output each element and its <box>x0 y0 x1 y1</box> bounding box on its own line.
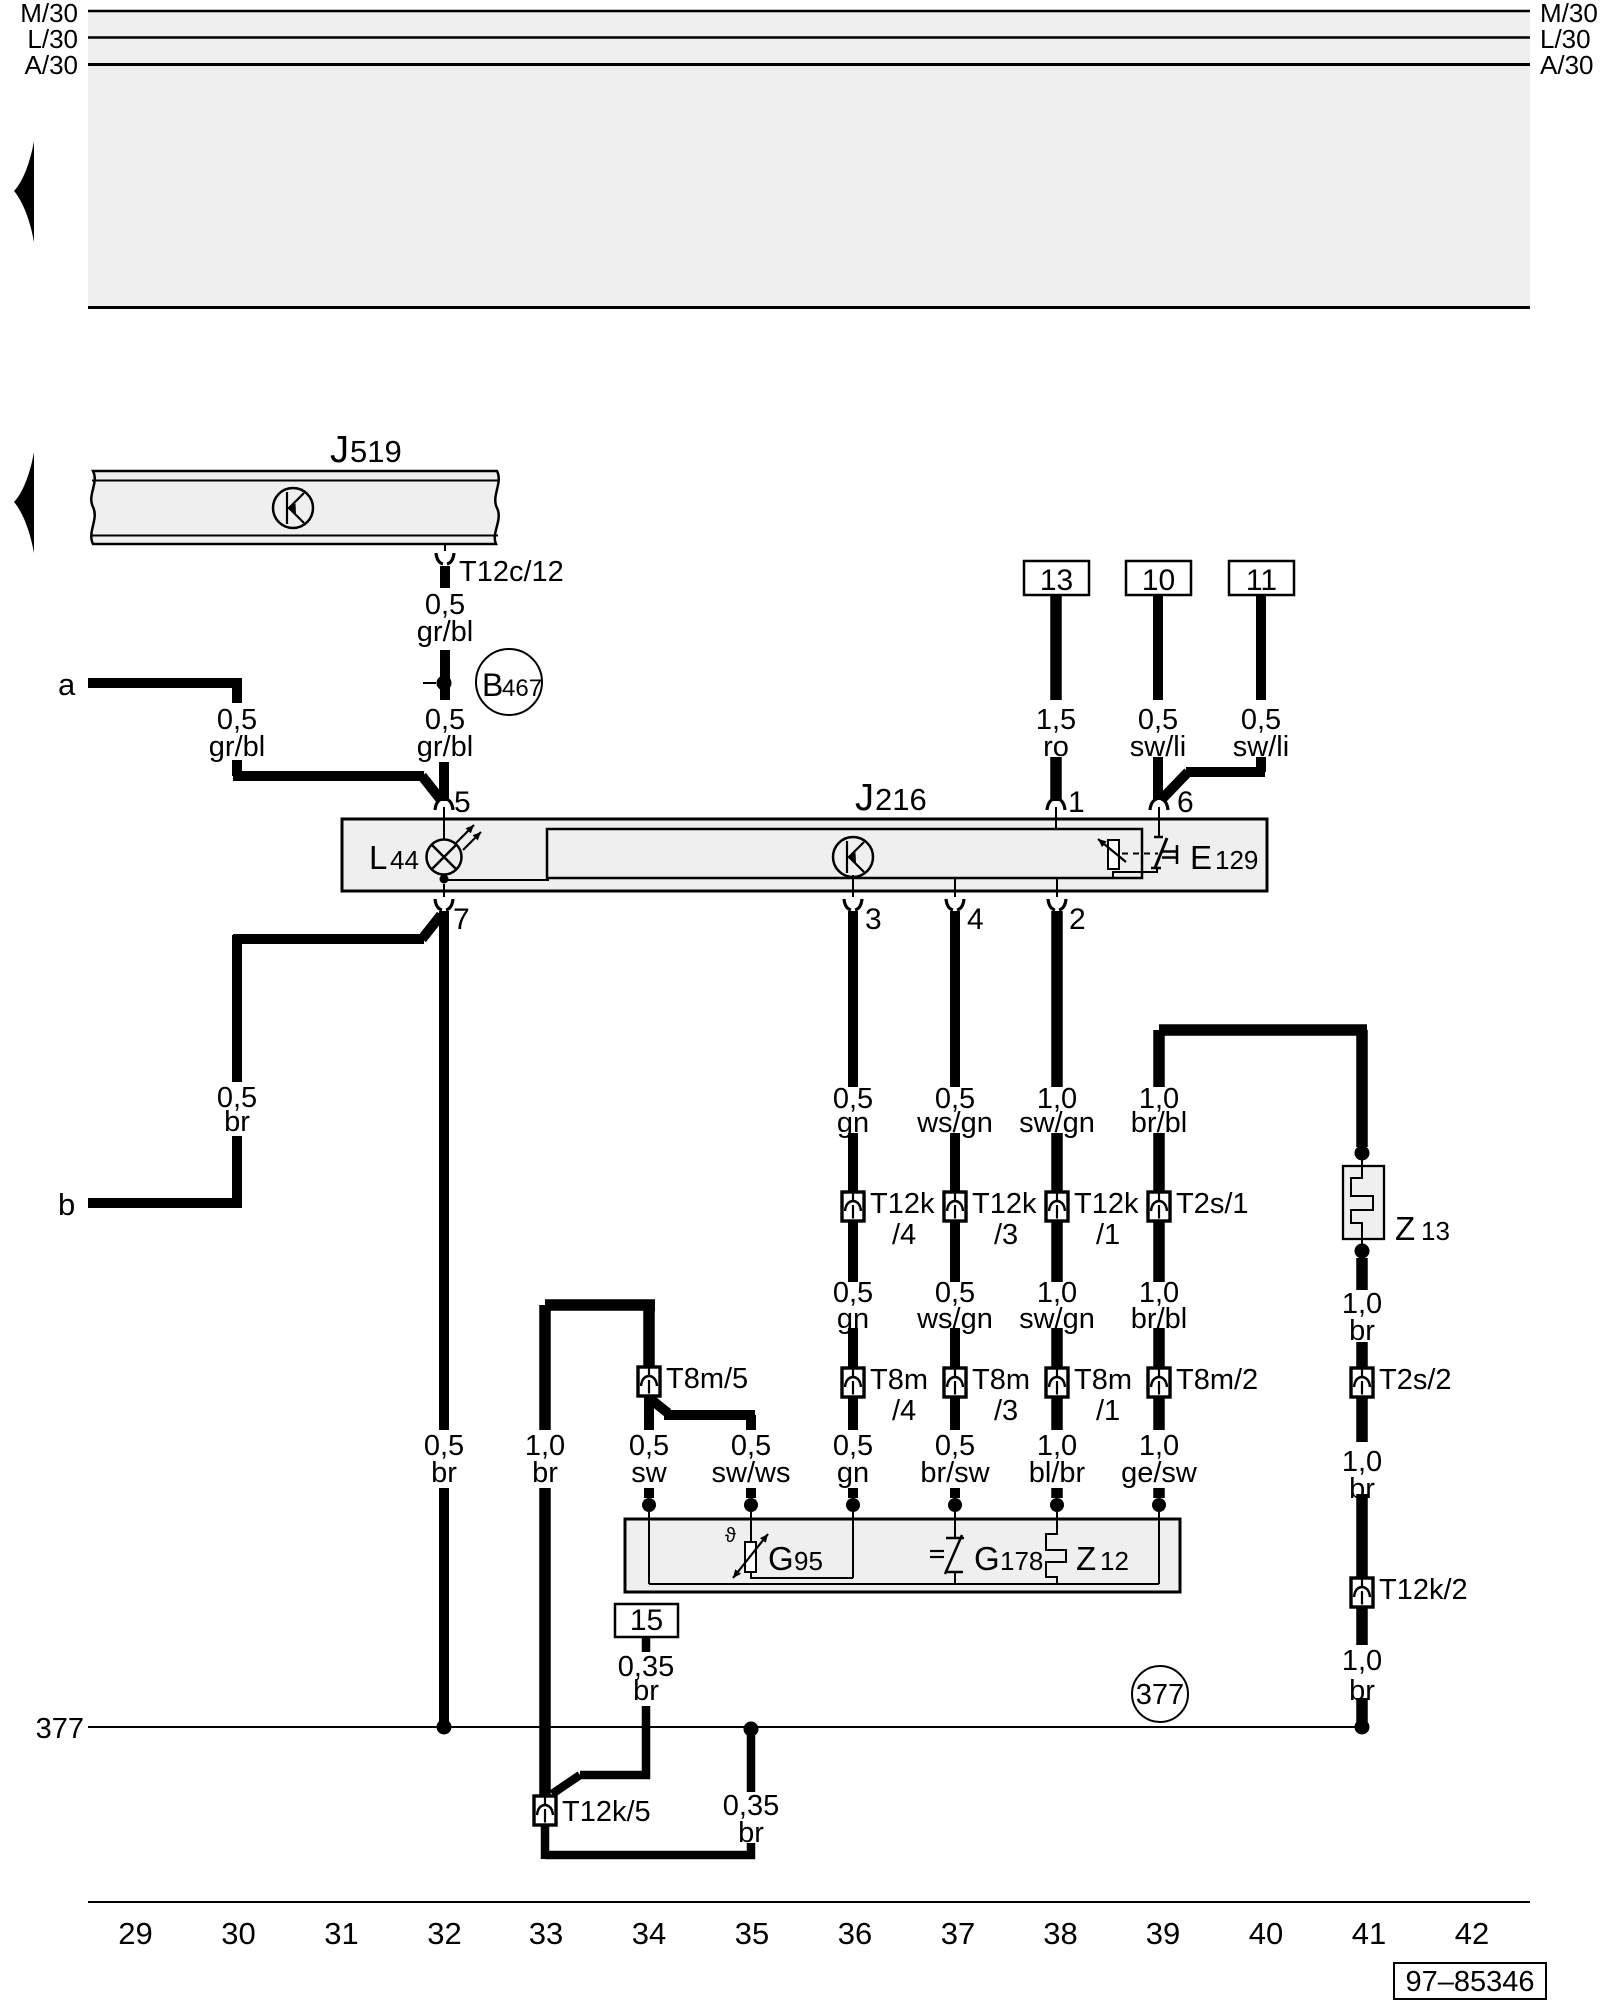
svg-text:42: 42 <box>1455 1916 1489 1951</box>
svg-text:377: 377 <box>36 1713 84 1745</box>
svg-text:A/30: A/30 <box>25 50 79 80</box>
svg-text:gr/bl: gr/bl <box>417 731 473 763</box>
svg-text:gr/bl: gr/bl <box>209 731 265 763</box>
svg-text:T12k: T12k <box>1074 1188 1139 1220</box>
svg-text:T8m/2: T8m/2 <box>1176 1364 1258 1396</box>
svg-text:377: 377 <box>1136 1679 1184 1711</box>
svg-text:br: br <box>224 1106 250 1138</box>
svg-text:30: 30 <box>221 1916 255 1951</box>
svg-text:/3: /3 <box>994 1219 1018 1251</box>
svg-text:/4: /4 <box>892 1219 916 1251</box>
svg-text:1: 1 <box>1068 786 1085 819</box>
svg-text:178: 178 <box>1000 1546 1043 1576</box>
svg-text:13: 13 <box>1040 564 1073 597</box>
svg-text:E: E <box>1190 839 1212 876</box>
svg-text:467: 467 <box>502 675 542 702</box>
svg-text:J: J <box>330 429 349 471</box>
svg-text:T12k/2: T12k/2 <box>1379 1574 1468 1606</box>
svg-text:sw: sw <box>631 1457 668 1489</box>
svg-text:34: 34 <box>632 1916 666 1951</box>
svg-text:T2s/2: T2s/2 <box>1379 1364 1452 1396</box>
svg-text:97–85346: 97–85346 <box>1405 1966 1534 1998</box>
svg-text:br/sw: br/sw <box>920 1457 990 1489</box>
svg-text:T8m/5: T8m/5 <box>666 1363 748 1395</box>
svg-text:37: 37 <box>941 1916 975 1951</box>
svg-text:Z: Z <box>1395 1210 1415 1247</box>
svg-text:G: G <box>974 1540 1000 1577</box>
svg-text:/3: /3 <box>994 1395 1018 1427</box>
svg-text:br: br <box>633 1675 659 1707</box>
svg-text:T8m: T8m <box>1074 1364 1132 1396</box>
svg-text:216: 216 <box>875 782 927 817</box>
svg-text:br: br <box>532 1457 558 1489</box>
svg-text:4: 4 <box>967 903 984 936</box>
svg-text:/4: /4 <box>892 1395 916 1427</box>
svg-text:a: a <box>58 667 76 702</box>
svg-text:T2s/1: T2s/1 <box>1176 1188 1249 1220</box>
svg-text:b: b <box>58 1187 75 1222</box>
svg-text:Z: Z <box>1076 1540 1096 1577</box>
svg-text:B: B <box>482 667 503 703</box>
svg-text:129: 129 <box>1215 845 1258 875</box>
svg-text:13: 13 <box>1421 1216 1450 1246</box>
svg-text:br: br <box>431 1457 457 1489</box>
svg-text:T8m: T8m <box>870 1364 928 1396</box>
svg-text:41: 41 <box>1352 1916 1386 1951</box>
svg-text:40: 40 <box>1249 1916 1283 1951</box>
svg-text:29: 29 <box>118 1916 152 1951</box>
svg-text:gn: gn <box>837 1457 869 1489</box>
svg-text:44: 44 <box>390 845 419 875</box>
svg-text:T12c/12: T12c/12 <box>459 556 564 588</box>
svg-text:10: 10 <box>1142 564 1175 597</box>
svg-text:L: L <box>369 839 387 876</box>
svg-text:T8m: T8m <box>972 1364 1030 1396</box>
svg-text:33: 33 <box>529 1916 563 1951</box>
svg-text:12: 12 <box>1100 1546 1129 1576</box>
svg-text:T12k: T12k <box>972 1188 1037 1220</box>
svg-text:35: 35 <box>735 1916 769 1951</box>
svg-text:T12k/5: T12k/5 <box>562 1796 651 1828</box>
svg-text:br: br <box>738 1817 764 1849</box>
svg-text:T12k: T12k <box>870 1188 935 1220</box>
svg-text:7: 7 <box>453 903 470 936</box>
svg-text:519: 519 <box>350 434 402 469</box>
svg-text:36: 36 <box>838 1916 872 1951</box>
svg-text:32: 32 <box>427 1916 461 1951</box>
svg-text:bl/br: bl/br <box>1029 1457 1086 1489</box>
svg-text:A/30: A/30 <box>1540 50 1594 80</box>
svg-text:/1: /1 <box>1096 1395 1120 1427</box>
svg-text:1,0: 1,0 <box>1342 1645 1382 1677</box>
svg-text:5: 5 <box>454 786 471 819</box>
svg-text:gr/bl: gr/bl <box>417 616 473 648</box>
svg-text:11: 11 <box>1246 564 1277 597</box>
svg-text:95: 95 <box>794 1546 823 1576</box>
svg-text:38: 38 <box>1043 1916 1077 1951</box>
svg-text:J: J <box>855 777 874 819</box>
svg-text:ϑ: ϑ <box>725 1525 736 1547</box>
svg-text:6: 6 <box>1177 786 1194 819</box>
svg-text:ge/sw: ge/sw <box>1121 1457 1198 1489</box>
svg-text:2: 2 <box>1069 903 1086 936</box>
svg-text:sw/ws: sw/ws <box>712 1457 791 1489</box>
svg-text:/1: /1 <box>1096 1219 1120 1251</box>
svg-text:31: 31 <box>324 1916 358 1951</box>
svg-text:15: 15 <box>630 1604 663 1637</box>
svg-text:3: 3 <box>865 903 882 936</box>
svg-text:G: G <box>768 1540 794 1577</box>
svg-text:39: 39 <box>1146 1916 1180 1951</box>
